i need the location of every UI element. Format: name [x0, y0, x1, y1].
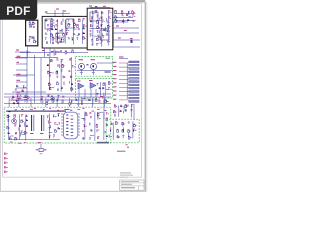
node labels above U3 box	[89, 6, 110, 8]
transistor Q1	[78, 59, 84, 75]
label below G4	[117, 144, 129, 152]
op-amp U4	[77, 81, 84, 90]
wire top feed to U2 box	[45, 9, 70, 17]
U2 parts	[45, 18, 87, 44]
corridor labels L	[11, 95, 30, 104]
U3 sub-module A	[90, 12, 98, 21]
standby supply parts	[113, 104, 133, 117]
net name on G3 bottom edge	[97, 142, 109, 144]
wire U1 down	[15, 46, 31, 57]
transformer T2	[40, 115, 44, 134]
bridge rectifier D1	[12, 119, 17, 124]
U3 parts	[90, 10, 112, 47]
transistor Q5	[130, 38, 133, 43]
title block table	[120, 180, 144, 190]
title block text	[120, 172, 133, 177]
CN1 pin wires	[113, 57, 129, 100]
U2 sub-module B	[66, 19, 74, 28]
wires G2 down	[79, 89, 96, 97]
thermistor RT1	[36, 142, 47, 154]
controller U3 box	[87, 8, 113, 50]
page right shadow	[145, 2, 148, 192]
svg-text:PDF: PDF	[6, 4, 30, 18]
snubber parts	[47, 113, 60, 139]
green box: output stage	[75, 57, 112, 77]
green box: driver stage	[75, 78, 112, 98]
output wires right	[113, 18, 140, 48]
U2 sub-module C	[56, 33, 64, 42]
corridor labels RR	[69, 99, 107, 106]
U1 parts top	[29, 22, 36, 29]
below G3 labels	[10, 142, 26, 144]
page background	[0, 0, 149, 198]
schematic frame border	[3, 4, 142, 178]
G3 pin label row	[8, 108, 106, 112]
U2 sub-module A	[45, 19, 52, 29]
page top gray band	[0, 0, 145, 3]
secondary parts	[81, 112, 109, 141]
op-amp U5	[89, 80, 96, 89]
IC module U1 box	[26, 20, 38, 46]
corridor labels R	[40, 95, 64, 105]
page left border	[0, 0, 2, 192]
transformer T1	[30, 115, 34, 134]
U1 parts bottom	[29, 36, 37, 43]
driver parts	[97, 81, 112, 97]
bus bar heavy wire	[6, 111, 66, 112]
bus wires corridor	[4, 94, 111, 107]
power module U2 box	[42, 16, 88, 48]
below U2 labels	[54, 50, 74, 56]
transistor Q2	[90, 59, 96, 75]
bias network R group	[114, 10, 136, 23]
page bottom border	[0, 191, 147, 192]
PWM IC U6	[61, 109, 80, 139]
connector bus ladder	[12, 50, 88, 103]
sense divider R group	[15, 85, 26, 92]
connector CN1 pin bars	[129, 61, 139, 102]
audio amp parts	[109, 121, 137, 140]
green box: audio amp section	[106, 119, 139, 143]
wires below U2	[15, 48, 58, 57]
PDF badge	[0, 0, 37, 20]
input connectors J1-J5	[4, 153, 8, 173]
U3 sub-module B	[100, 30, 109, 40]
green box: primary power section	[4, 107, 111, 143]
vertical feed wire	[100, 95, 134, 120]
input filter parts	[7, 114, 28, 140]
filter C/R group	[47, 57, 75, 92]
bottom rail wire	[8, 139, 60, 141]
wire Q1-Q2 link	[77, 58, 114, 73]
